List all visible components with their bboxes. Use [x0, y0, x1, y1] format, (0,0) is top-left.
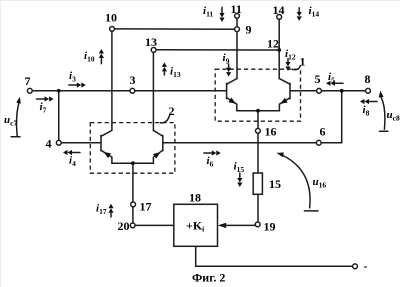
wire corner up to junction on node 5-8 wire [341, 91, 343, 143]
current i13 arrow [162, 62, 167, 75]
wire node 14 down through node 12 to T2 collector [278, 19, 280, 78]
svg-text:6: 6 [320, 125, 326, 139]
wire block 18 output to bottom rail [196, 246, 353, 266]
terminal bottom minus [353, 264, 358, 269]
current i11 arrow [219, 7, 224, 22]
junction node 12 [277, 48, 281, 52]
ground bar uc8 [380, 130, 388, 132]
svg-text:5: 5 [315, 72, 321, 86]
junction node 5-8 row and riser from node 6 [340, 89, 344, 93]
svg-text:Фиг. 2: Фиг. 2 [192, 271, 225, 285]
wire resistor 15 to node 19 [257, 194, 259, 222]
wire T4 base to corner below node 8 [163, 142, 342, 144]
terminal node 10 [110, 27, 115, 32]
terminal node 11 [235, 14, 240, 19]
svg-text:19: 19 [264, 220, 276, 234]
transistor T1 (box1 left, NPN) [227, 79, 237, 111]
transistor T2 (box1 right, NPN) [279, 79, 290, 111]
current i15 arrow [237, 173, 242, 187]
arrowhead into block 18 [218, 223, 226, 228]
block 18 (+Ki amplifier) [174, 204, 218, 246]
svg-text:7: 7 [25, 74, 31, 88]
wire box1 common emitter rail [237, 110, 280, 112]
terminal node 19 [255, 222, 260, 227]
terminal node 5 [317, 88, 322, 93]
current i10 arrow [99, 49, 104, 64]
terminal node 9 [235, 27, 240, 32]
terminal node 17 [131, 202, 136, 207]
current i3 arrow [69, 82, 86, 87]
svg-text:18: 18 [189, 191, 201, 205]
junction node7 row to node4 drop [57, 89, 61, 93]
wire main row right: T2 base to node 8 [290, 90, 366, 92]
dashed box 2 (pair T3 T4) [90, 123, 175, 174]
junction box1 emitter [256, 109, 260, 113]
wire node 20 to block 18 [135, 224, 174, 226]
svg-text:9: 9 [246, 23, 252, 37]
wire main row left: node 7 to T1 base [32, 90, 226, 92]
ground bar u16 [304, 210, 318, 212]
svg-text:12: 12 [267, 37, 279, 51]
terminal node 16 [256, 128, 261, 133]
terminal node 14 [277, 15, 282, 20]
label 1 with leader [293, 55, 306, 70]
junction box2 emitter [131, 161, 135, 165]
wire node 4 to T3 base [61, 142, 101, 144]
dashed box 1 (pair T1 T2) [215, 69, 300, 121]
wire box1 emitters down through node 16 to resistor 15 [257, 111, 259, 174]
current i9 arrow [226, 64, 231, 77]
wire node 10 to node 9 [114, 28, 237, 30]
current i17 arrow [108, 204, 113, 217]
wire node 13 down to T4 collector [152, 52, 154, 130]
voltage uc7 arc with arrowhead [16, 97, 21, 136]
current i4 arrow [63, 150, 80, 155]
current i7 arrow [37, 96, 54, 101]
wire box2 emitters down through node 17 to node 20 [132, 163, 134, 223]
svg-text:14: 14 [273, 3, 285, 17]
svg-text:13: 13 [145, 35, 157, 49]
current i5 arrow [326, 81, 343, 86]
terminal node 13 [151, 48, 156, 53]
terminal node 20 [130, 223, 135, 228]
svg-text:10: 10 [105, 11, 117, 25]
terminal node 8 [366, 88, 371, 93]
current i12 arrow [285, 59, 290, 72]
wire node 10 down to T3 collector [111, 31, 113, 130]
svg-text:4: 4 [46, 137, 52, 151]
wire junction to node 4 [58, 91, 60, 141]
svg-text:3: 3 [130, 73, 136, 87]
wire box2 common emitter rail [112, 162, 153, 164]
wire node 19 to block 18 input [225, 224, 255, 226]
terminal node 4 [56, 140, 61, 145]
terminal node 3 [130, 88, 135, 93]
svg-text:17: 17 [140, 200, 152, 214]
svg-text:8: 8 [365, 72, 371, 86]
svg-text:11: 11 [231, 2, 242, 16]
wire node 11 down through node 9 to T1 collector [236, 18, 238, 78]
label 2 with leader [161, 104, 175, 123]
transistor T4 (box2 right, PNP) [153, 130, 163, 163]
resistor 15 [253, 173, 262, 194]
svg-text:15: 15 [269, 177, 281, 191]
svg-text:16: 16 [265, 125, 277, 139]
voltage u16 arc with arrowhead [276, 153, 310, 208]
voltage uc8 arc with arrowhead [379, 91, 385, 130]
wire node 13 to node 12 [156, 49, 279, 51]
svg-text:20: 20 [118, 219, 130, 233]
terminal node 7 [27, 88, 32, 93]
terminal node 6 [316, 140, 321, 145]
svg-text:+Ki: +Ki [186, 219, 204, 234]
svg-text:-: - [364, 259, 368, 273]
current i6 arrow [204, 150, 221, 155]
ground bar uc7 [11, 136, 20, 138]
current i8 arrow [360, 99, 377, 104]
current i14 arrow [297, 8, 302, 21]
transistor T3 (box2 left, PNP) [101, 130, 112, 163]
